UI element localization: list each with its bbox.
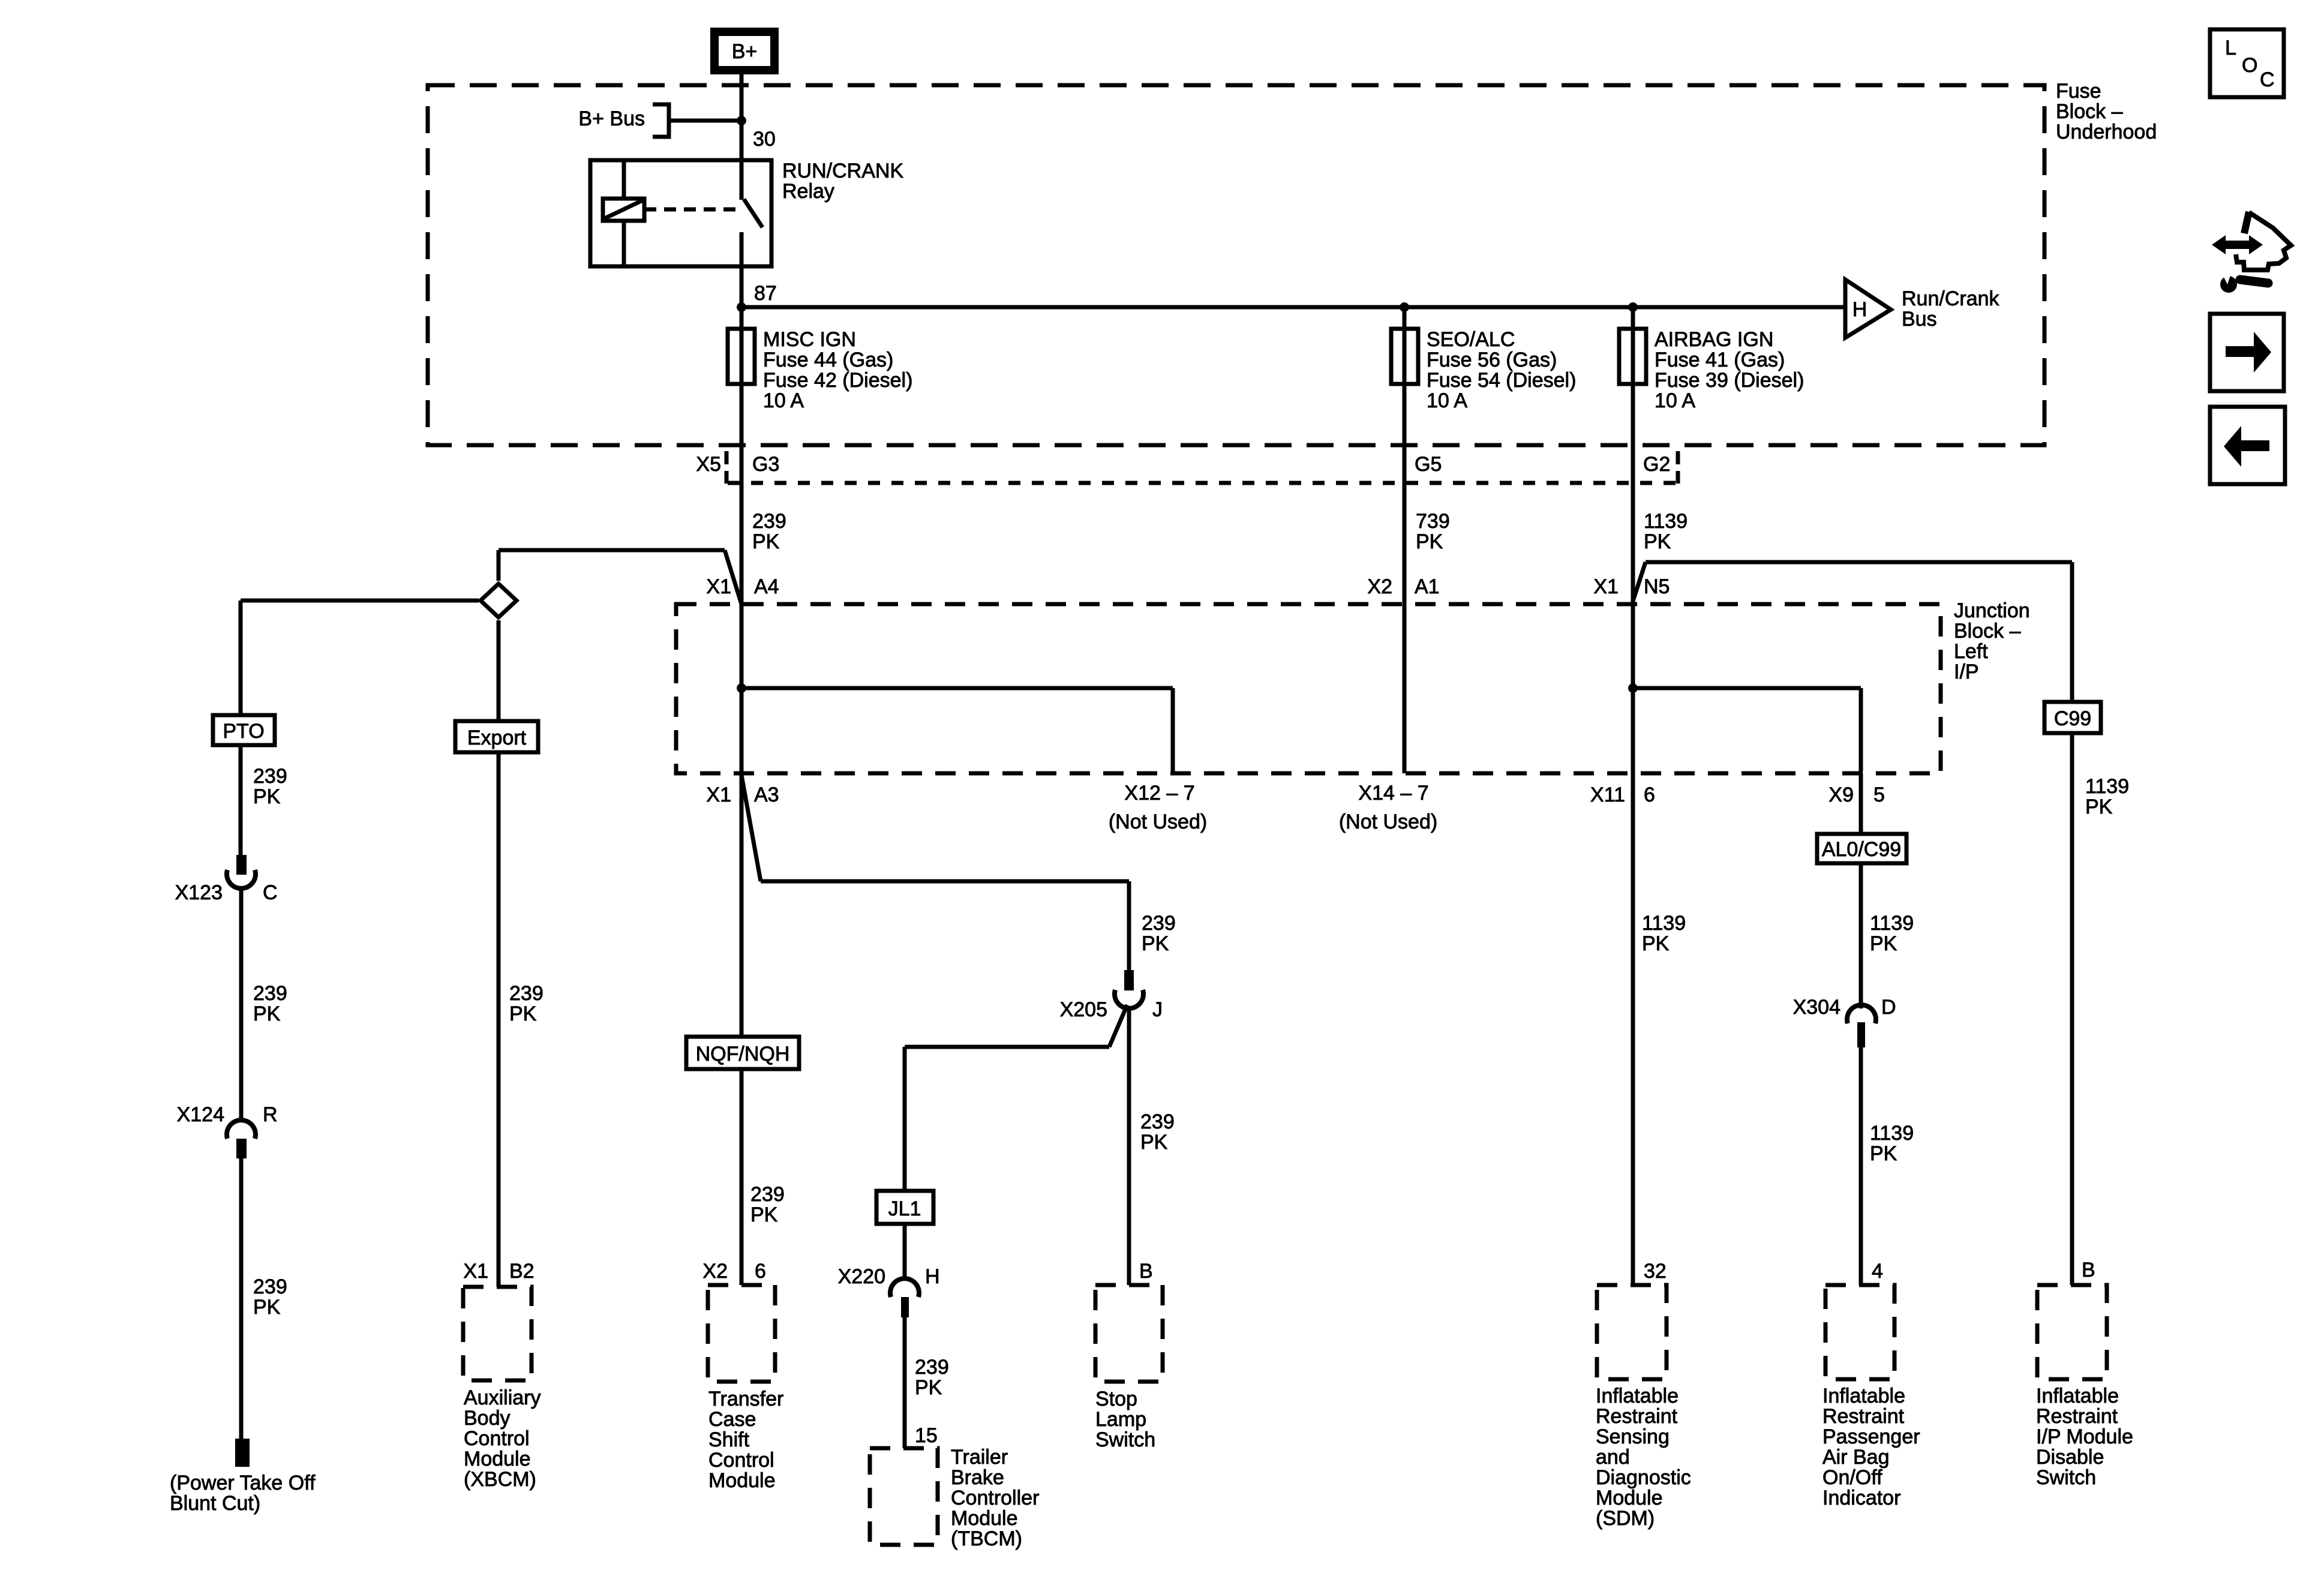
svg-text:X12 – 7: X12 – 7	[1124, 782, 1194, 804]
svg-text:PK: PK	[752, 530, 780, 553]
svg-text:L: L	[2225, 37, 2236, 59]
svg-text:PK: PK	[1642, 932, 1670, 955]
svg-text:X1: X1	[706, 784, 731, 806]
svg-text:PK: PK	[1416, 530, 1443, 553]
svg-text:SEO/ALC: SEO/ALC	[1427, 328, 1515, 351]
svg-text:X11: X11	[1590, 784, 1625, 806]
svg-text:Module: Module	[708, 1469, 776, 1492]
svg-text:B+: B+	[732, 40, 758, 63]
svg-text:H: H	[1852, 298, 1867, 321]
svg-text:N5: N5	[1644, 575, 1670, 598]
svg-text:Lamp: Lamp	[1095, 1408, 1146, 1431]
svg-text:Controller: Controller	[951, 1487, 1039, 1509]
svg-text:G2: G2	[1643, 453, 1670, 476]
svg-text:6: 6	[1644, 784, 1655, 806]
svg-text:Switch: Switch	[1095, 1428, 1155, 1451]
svg-text:Transfer: Transfer	[708, 1388, 783, 1410]
svg-text:Fuse 39 (Diesel): Fuse 39 (Diesel)	[1655, 369, 1804, 392]
svg-text:A4: A4	[754, 575, 779, 598]
svg-text:PK: PK	[1142, 932, 1169, 955]
svg-text:239: 239	[1142, 912, 1176, 935]
svg-text:239: 239	[750, 1183, 785, 1206]
svg-text:Fuse 56 (Gas): Fuse 56 (Gas)	[1427, 349, 1557, 371]
svg-text:X1: X1	[1593, 575, 1619, 598]
svg-text:PK: PK	[750, 1203, 778, 1226]
svg-text:PK: PK	[253, 1296, 281, 1319]
svg-text:Module: Module	[1596, 1487, 1663, 1509]
svg-text:1139: 1139	[1642, 912, 1686, 935]
svg-text:X205: X205	[1060, 998, 1107, 1021]
svg-text:(Not Used): (Not Used)	[1339, 810, 1437, 833]
svg-text:Diagnostic: Diagnostic	[1596, 1466, 1691, 1489]
svg-text:X1: X1	[463, 1260, 488, 1283]
svg-text:Indicator: Indicator	[1822, 1487, 1900, 1509]
svg-text:PK: PK	[253, 1002, 281, 1025]
svg-text:10 A: 10 A	[763, 389, 804, 412]
svg-text:X304: X304	[1793, 996, 1840, 1019]
svg-text:AL0/C99: AL0/C99	[1822, 838, 1901, 861]
svg-text:Trailer: Trailer	[951, 1446, 1008, 1469]
svg-text:5: 5	[1873, 784, 1885, 806]
svg-text:O: O	[2242, 54, 2257, 77]
svg-text:Restraint: Restraint	[2036, 1405, 2118, 1428]
svg-text:Fuse: Fuse	[2056, 80, 2101, 103]
svg-text:239: 239	[509, 982, 544, 1005]
svg-text:Fuse 54 (Diesel): Fuse 54 (Diesel)	[1427, 369, 1576, 392]
svg-text:B+ Bus: B+ Bus	[578, 107, 645, 130]
svg-text:6: 6	[755, 1260, 766, 1283]
svg-text:Restraint: Restraint	[1822, 1405, 1905, 1428]
svg-text:Body: Body	[464, 1407, 511, 1430]
svg-text:30: 30	[753, 128, 776, 151]
svg-text:B: B	[1139, 1260, 1153, 1283]
svg-text:Junction: Junction	[1954, 599, 2030, 622]
svg-text:Air Bag: Air Bag	[1822, 1446, 1890, 1469]
svg-text:10 A: 10 A	[1655, 389, 1695, 412]
svg-text:Left: Left	[1954, 640, 1988, 663]
svg-text:J: J	[1152, 998, 1163, 1021]
svg-text:A3: A3	[754, 784, 779, 806]
svg-text:D: D	[1881, 996, 1896, 1019]
svg-text:1139: 1139	[1870, 912, 1914, 935]
svg-text:Underhood: Underhood	[2056, 121, 2157, 143]
svg-text:C: C	[2260, 68, 2275, 91]
svg-text:239: 239	[1140, 1110, 1175, 1133]
svg-text:PK: PK	[1644, 530, 1671, 553]
svg-text:Auxiliary: Auxiliary	[464, 1386, 541, 1409]
svg-text:Export: Export	[467, 727, 527, 749]
svg-text:10 A: 10 A	[1427, 389, 1467, 412]
svg-text:4: 4	[1872, 1260, 1883, 1283]
svg-text:Module: Module	[464, 1448, 531, 1470]
svg-text:B2: B2	[509, 1260, 535, 1283]
svg-text:G5: G5	[1415, 453, 1442, 476]
svg-text:PK: PK	[1870, 1142, 1897, 1165]
svg-text:Block –: Block –	[1954, 620, 2021, 643]
svg-text:Switch: Switch	[2036, 1466, 2096, 1489]
svg-text:32: 32	[1644, 1260, 1667, 1283]
svg-text:Bus: Bus	[1902, 308, 1937, 331]
svg-text:Inflatable: Inflatable	[1822, 1385, 1905, 1407]
svg-text:PK: PK	[253, 785, 281, 808]
svg-text:H: H	[925, 1265, 940, 1288]
svg-text:239: 239	[752, 510, 786, 533]
svg-text:Fuse 42 (Diesel): Fuse 42 (Diesel)	[763, 369, 912, 392]
svg-text:C99: C99	[2054, 707, 2091, 730]
svg-text:1139: 1139	[1644, 510, 1688, 533]
svg-text:G3: G3	[752, 453, 779, 476]
svg-text:(Not Used): (Not Used)	[1109, 810, 1207, 833]
svg-text:NQF/NQH: NQF/NQH	[696, 1043, 790, 1065]
svg-text:On/Off: On/Off	[1822, 1466, 1882, 1489]
svg-text:X124: X124	[177, 1103, 224, 1126]
svg-text:I/P Module: I/P Module	[2036, 1425, 2133, 1448]
svg-text:Fuse 44 (Gas): Fuse 44 (Gas)	[763, 349, 893, 371]
svg-text:and: and	[1596, 1446, 1630, 1469]
svg-text:X2: X2	[1367, 575, 1392, 598]
svg-text:Control: Control	[708, 1449, 774, 1472]
svg-text:Restraint: Restraint	[1596, 1405, 1678, 1428]
svg-text:Run/Crank: Run/Crank	[1902, 287, 2000, 310]
svg-text:(Power Take Off: (Power Take Off	[170, 1472, 316, 1494]
svg-text:PK: PK	[2085, 795, 2113, 818]
svg-text:239: 239	[253, 982, 287, 1005]
svg-text:B: B	[2082, 1259, 2095, 1281]
svg-text:1139: 1139	[1870, 1122, 1914, 1145]
svg-text:Sensing: Sensing	[1596, 1425, 1670, 1448]
svg-text:I/P: I/P	[1954, 661, 1979, 683]
svg-text:X2: X2	[702, 1260, 728, 1283]
svg-text:Blunt Cut): Blunt Cut)	[170, 1492, 260, 1515]
svg-text:X5: X5	[696, 453, 721, 476]
svg-text:X1: X1	[706, 575, 731, 598]
svg-text:R: R	[263, 1103, 278, 1126]
svg-text:AIRBAG IGN: AIRBAG IGN	[1655, 328, 1773, 351]
svg-text:15: 15	[915, 1424, 938, 1447]
svg-text:Brake: Brake	[951, 1466, 1004, 1489]
svg-text:X123: X123	[175, 881, 223, 904]
svg-text:239: 239	[915, 1356, 949, 1379]
svg-text:A1: A1	[1415, 575, 1440, 598]
svg-text:Relay: Relay	[782, 180, 834, 203]
svg-text:MISC IGN: MISC IGN	[763, 328, 856, 351]
svg-text:C: C	[263, 881, 278, 904]
svg-text:1139: 1139	[2085, 775, 2129, 798]
svg-text:Passenger: Passenger	[1822, 1425, 1920, 1448]
svg-text:PK: PK	[509, 1002, 537, 1025]
svg-text:Fuse 41 (Gas): Fuse 41 (Gas)	[1655, 349, 1785, 371]
svg-text:Shift: Shift	[708, 1428, 750, 1451]
svg-text:Case: Case	[708, 1408, 756, 1431]
svg-text:239: 239	[253, 1275, 287, 1298]
svg-text:PK: PK	[1140, 1131, 1168, 1154]
svg-text:Inflatable: Inflatable	[1596, 1385, 1679, 1407]
svg-text:(TBCM): (TBCM)	[951, 1527, 1022, 1550]
svg-text:Inflatable: Inflatable	[2036, 1385, 2119, 1407]
svg-text:Block –: Block –	[2056, 100, 2123, 123]
svg-text:Disable: Disable	[2036, 1446, 2104, 1469]
svg-text:Stop: Stop	[1095, 1388, 1137, 1410]
svg-text:239: 239	[253, 765, 287, 788]
svg-text:739: 739	[1416, 510, 1450, 533]
svg-text:(SDM): (SDM)	[1596, 1507, 1655, 1530]
svg-text:Module: Module	[951, 1507, 1018, 1530]
svg-text:X14 – 7: X14 – 7	[1358, 782, 1428, 804]
svg-text:JL1: JL1	[888, 1197, 921, 1220]
svg-text:PTO: PTO	[223, 720, 264, 743]
svg-text:PK: PK	[915, 1376, 942, 1399]
svg-text:PK: PK	[1870, 932, 1897, 955]
svg-text:87: 87	[754, 282, 777, 305]
svg-text:RUN/CRANK: RUN/CRANK	[782, 160, 903, 182]
svg-text:Control: Control	[464, 1427, 530, 1450]
svg-text:X220: X220	[838, 1265, 885, 1288]
svg-text:(XBCM): (XBCM)	[464, 1468, 536, 1491]
svg-text:X9: X9	[1828, 784, 1854, 806]
